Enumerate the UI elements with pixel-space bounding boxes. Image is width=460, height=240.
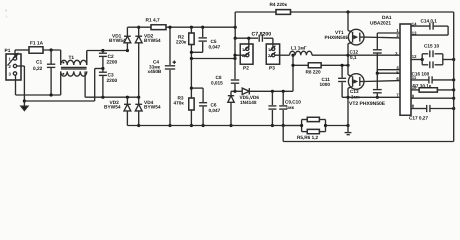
svg-text:R7 30,1к: R7 30,1к (413, 83, 432, 88)
capacitor C5 (190, 27, 221, 54)
svg-text:470к: 470к (174, 101, 185, 106)
wire P2 pin2 left-down (233, 54, 245, 57)
capacitor C3 (99, 69, 118, 98)
wire top bus left corner (234, 12, 237, 40)
resistor R8 (291, 63, 349, 75)
wire L1 to half-bridge midpoint (291, 54, 400, 57)
svg-text:0,1: 0,1 (350, 55, 357, 60)
svg-text:1000: 1000 (320, 82, 331, 87)
capacitor C2 (99, 51, 118, 71)
resistor R2 (176, 27, 194, 58)
svg-text:C2: C2 (108, 54, 114, 60)
connector P3 (266, 44, 279, 72)
svg-text:C13: C13 (350, 89, 359, 94)
diode VD2 (135, 26, 161, 98)
svg-text:2200: 2200 (107, 78, 118, 84)
wire source node to pin7 (342, 96, 400, 98)
svg-text:R8 220: R8 220 (306, 69, 322, 74)
svg-text:BYW54: BYW54 (144, 105, 161, 111)
svg-text:BYW54: BYW54 (109, 38, 126, 44)
ground (power) (345, 126, 352, 135)
svg-text:C8: C8 (216, 75, 222, 80)
diode VD3 (104, 97, 131, 125)
svg-text:VT2 PHX9N50E: VT2 PHX9N50E (349, 101, 386, 107)
diode VD5 (231, 88, 293, 105)
wire outer loop right (453, 12, 455, 142)
svg-text:C14 0,1: C14 0,1 (421, 19, 438, 24)
svg-text:C9,C10: C9,C10 (285, 100, 301, 105)
svg-text:1N4148: 1N4148 (240, 100, 257, 105)
svg-text:х450В: х450В (148, 69, 162, 74)
resistor R4 (270, 2, 291, 14)
wire top bus right (291, 10, 454, 13)
resistor R3 (174, 59, 195, 128)
capacitor C9 (268, 91, 301, 127)
svg-text:13: 13 (412, 30, 417, 35)
svg-text:C17 0,27: C17 0,27 (409, 116, 428, 121)
capacitor C7 (235, 32, 273, 42)
svg-text:P2: P2 (243, 66, 249, 72)
scan speckle marks (5, 9, 8, 17)
capacitor C10 (279, 91, 287, 127)
wire P3 pin2 to L1 (275, 54, 290, 56)
svg-text:BYW54: BYW54 (144, 38, 161, 44)
pin 11 and capacitor C16 (411, 72, 455, 84)
ground (mains earth) (21, 101, 28, 111)
svg-text:C6: C6 (211, 103, 217, 108)
svg-text:C12: C12 (350, 50, 359, 55)
resistors R5,R6 paralleled (283, 117, 349, 140)
fuse F1 (29, 41, 44, 54)
connector P1 (5, 48, 22, 80)
wire VT2 gate to pin6 (363, 80, 400, 83)
svg-text:220к: 220к (176, 40, 187, 45)
capacitor C13 (350, 73, 382, 99)
transistor VT1 (325, 12, 365, 55)
connector P2 (240, 44, 253, 72)
wire P1 pin3 to bottom (16, 75, 61, 96)
capacitor C6 (191, 88, 220, 127)
wire P1 pin2 to ground (17, 66, 26, 103)
svg-text:P3: P3 (269, 66, 275, 72)
resistor R1 (127, 17, 168, 29)
svg-text:BYW54: BYW54 (104, 105, 121, 111)
pin 4 (396, 65, 399, 70)
capacitor C1 (33, 50, 55, 95)
capacitor C12 (350, 33, 401, 73)
svg-text:0,047: 0,047 (209, 108, 221, 113)
wire outer loop bottom (283, 126, 454, 142)
svg-text:0,015: 0,015 (211, 81, 223, 86)
pin 5 (396, 70, 399, 75)
pin 6 (396, 76, 399, 81)
pin 12 and capacitors C15 (411, 43, 455, 68)
pin 10 and resistor R7 (411, 83, 455, 92)
diode VD6 (228, 91, 234, 127)
pin 8 and capacitor C17 (409, 104, 455, 121)
wire lamp-left down (292, 55, 294, 91)
transformer T1 (61, 50, 87, 76)
pin 7 (396, 93, 399, 98)
svg-text:C1: C1 (36, 60, 42, 66)
pin 9 wire (411, 93, 455, 99)
capacitor C4 (148, 27, 177, 127)
wire fuse to T1 (43, 48, 61, 51)
pin 13 wire (411, 30, 448, 35)
wire earth bus (24, 69, 103, 102)
svg-text:L1 1мГ: L1 1мГ (291, 46, 307, 51)
wire P1 pin1 to fuse (15, 50, 29, 57)
wire R2 node to C8 (190, 57, 237, 60)
svg-text:C15 10: C15 10 (424, 43, 440, 48)
svg-text:R4 220к: R4 220к (270, 2, 288, 7)
svg-text:PHX9N50E: PHX9N50E (325, 35, 349, 40)
wire T1 bottom-left to bottom wire (60, 71, 62, 95)
wire T1 top-right to bridge (AC1) (87, 49, 129, 65)
diode VD4 (135, 97, 161, 127)
node pins 4-5 (376, 70, 400, 75)
op-amp U1 (IC DA1 UBA2021) (370, 15, 411, 115)
inductor L1 (290, 46, 312, 56)
top rail (168, 26, 237, 29)
svg-text:P1: P1 (5, 48, 11, 54)
svg-text:R5,R6 1,2: R5,R6 1,2 (297, 135, 318, 140)
wire C7 to P3 pin1 (272, 38, 274, 47)
svg-text:C3: C3 (108, 73, 114, 79)
capacitor C11 (320, 64, 347, 98)
svg-text:F1 1A: F1 1A (30, 41, 44, 47)
pin 3 (395, 51, 400, 56)
transistor VT2 (346, 55, 385, 125)
svg-text:C16 100: C16 100 (412, 72, 430, 77)
svg-text:0,047: 0,047 (209, 45, 221, 50)
bottom rail (127, 125, 301, 127)
wire top bus (235, 11, 276, 13)
svg-text:C7 8200: C7 8200 (252, 32, 272, 38)
svg-text:0,22: 0,22 (33, 66, 43, 72)
svg-text:C5: C5 (211, 39, 217, 44)
svg-text:14: 14 (412, 21, 417, 26)
svg-text:12: 12 (412, 54, 417, 59)
pin 1 (396, 28, 399, 33)
svg-text:DA1: DA1 (382, 15, 392, 21)
pin 14 and capacitor C14 (411, 19, 448, 36)
wire P2 pin1 up (248, 38, 250, 47)
pin 2 (396, 33, 400, 38)
wire VT1 gate to pin2 (363, 36, 400, 39)
wire T1 bottom-right to AC2 (85, 71, 140, 98)
svg-text:UBA2021: UBA2021 (370, 20, 391, 26)
diode VD1 (109, 27, 131, 50)
svg-text:R1 4,7: R1 4,7 (146, 17, 160, 23)
capacitor C8 (211, 38, 239, 93)
svg-text:2200: 2200 (107, 60, 118, 66)
